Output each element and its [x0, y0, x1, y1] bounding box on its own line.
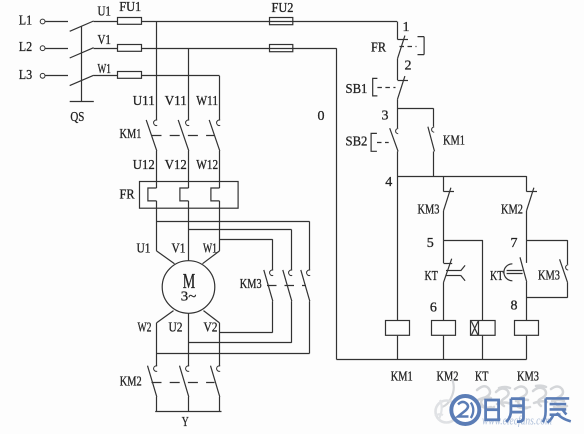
svg-text:U12: U12: [133, 157, 155, 172]
svg-text:0: 0: [318, 109, 325, 124]
svg-text:6: 6: [430, 301, 437, 316]
svg-text:W2: W2: [138, 320, 152, 335]
svg-text:U2: U2: [169, 320, 183, 335]
svg-text:V2: V2: [204, 320, 218, 335]
svg-text:FR: FR: [120, 186, 135, 201]
svg-text:V1: V1: [98, 32, 111, 47]
svg-text:V1: V1: [172, 241, 186, 256]
svg-text:KM3: KM3: [517, 369, 539, 384]
svg-text:FU1: FU1: [119, 0, 141, 14]
svg-text:1: 1: [403, 20, 410, 35]
svg-text:FU2: FU2: [272, 0, 294, 15]
svg-text:KM3: KM3: [538, 268, 560, 283]
svg-text:7: 7: [511, 236, 518, 251]
svg-text:KM2: KM2: [501, 202, 523, 217]
svg-text:W1: W1: [98, 61, 111, 76]
svg-text:8: 8: [511, 299, 518, 314]
svg-text:KM1: KM1: [120, 126, 142, 141]
svg-text:SB2: SB2: [346, 134, 368, 149]
svg-text:U1: U1: [137, 241, 151, 256]
svg-text:Y: Y: [182, 414, 189, 429]
svg-text:5: 5: [427, 236, 434, 251]
svg-text:QS: QS: [70, 109, 84, 124]
svg-text:KM2: KM2: [437, 369, 459, 384]
svg-text:FR: FR: [371, 39, 386, 54]
svg-text:L3: L3: [19, 67, 33, 82]
svg-text:4: 4: [385, 175, 392, 190]
svg-text:KT: KT: [490, 268, 504, 283]
svg-text:KT: KT: [475, 369, 489, 384]
svg-text:KM1: KM1: [443, 132, 465, 147]
svg-text:W1: W1: [203, 241, 217, 256]
svg-text:2: 2: [405, 59, 412, 74]
svg-text:L2: L2: [19, 39, 32, 54]
svg-text:U11: U11: [133, 93, 155, 108]
svg-text:KT: KT: [425, 268, 439, 283]
svg-text:SB1: SB1: [346, 81, 368, 96]
svg-text:V11: V11: [165, 93, 187, 108]
svg-text:W11: W11: [196, 93, 218, 108]
svg-text:3~: 3~: [181, 290, 197, 305]
svg-text:KM3: KM3: [240, 276, 262, 291]
svg-text:W12: W12: [196, 157, 218, 172]
svg-text:V12: V12: [165, 157, 187, 172]
svg-text:U1: U1: [98, 4, 111, 19]
svg-text:KM3: KM3: [418, 202, 440, 217]
svg-text:KM2: KM2: [120, 373, 142, 388]
svg-text:L1: L1: [19, 13, 32, 28]
svg-text:3: 3: [382, 108, 389, 123]
svg-text:KM1: KM1: [391, 369, 413, 384]
